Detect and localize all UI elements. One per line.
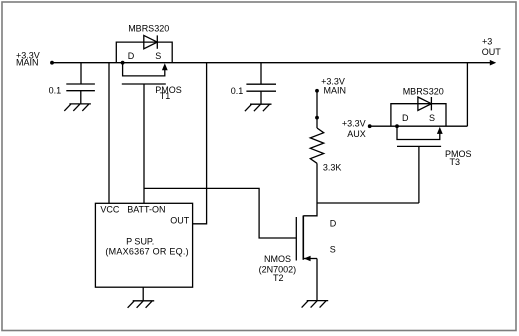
node: T3 drain junction (395, 124, 399, 128)
capacitor C2 0.1 (246, 84, 276, 91)
wire: T1 gate to BATT-ON pin (143, 84, 145, 203)
wire: +3.3V MAIN to resistor R1 (316, 91, 318, 118)
svg-text:MAIN: MAIN (16, 58, 39, 68)
wire: +3.3V AUX to T3 source corner (370, 125, 468, 127)
svg-text:0.1: 0.1 (49, 85, 62, 95)
wire: C1 to ground (80, 91, 82, 104)
T1 gate line (122, 83, 166, 85)
wire: T2 drain node to T3 gate (317, 202, 419, 204)
wire: rail down to OUT pin of U1 (193, 63, 207, 224)
IC U1 P SUP. (MAX6367 OR EQ.) box (95, 203, 192, 287)
svg-text:AUX: AUX (347, 129, 366, 139)
svg-text:T2: T2 (273, 273, 284, 283)
wire: resistor R1 to T2 drain node (316, 163, 318, 203)
node: T1 drain junction (121, 61, 125, 65)
T1 source arrow (162, 63, 168, 70)
svg-text:D: D (330, 218, 337, 228)
transistor Q2 NMOS T2 gate bar (295, 217, 297, 261)
svg-text:NMOS: NMOS (264, 254, 291, 264)
T2 source stub (304, 258, 317, 260)
ground under T2 (302, 301, 329, 308)
node: junction above resistor R1 (315, 116, 319, 120)
ground under C2 (245, 104, 272, 111)
svg-text:P SUP.: P SUP. (126, 236, 154, 246)
svg-text:+3: +3 (482, 36, 492, 46)
svg-text:S: S (330, 244, 336, 254)
svg-text:(MAX6367 OR EQ.): (MAX6367 OR EQ.) (105, 246, 189, 256)
svg-text:MAIN: MAIN (324, 86, 347, 96)
output arrowhead +3 OUT (490, 60, 496, 66)
diode D1 triangle and cathode bar (144, 35, 158, 48)
svg-text:OUT: OUT (170, 215, 190, 225)
node: +3.3V MAIN mid terminal (315, 89, 319, 93)
svg-text:MBRS320: MBRS320 (403, 86, 444, 96)
diode D2 MBRS320 loop over T3 (391, 104, 446, 127)
wire: rail down to VCC pin of U1 (108, 63, 110, 204)
wire: rail down to T3 source (466, 63, 468, 126)
wire: BATT-ON branch to T2 gate (144, 188, 296, 238)
svg-text:BATT-ON: BATT-ON (127, 204, 165, 214)
node: +3.3V AUX input terminal (368, 124, 372, 128)
svg-text:T3: T3 (450, 157, 461, 167)
svg-text:S: S (429, 113, 435, 123)
svg-text:D: D (128, 51, 135, 61)
svg-text:0.1: 0.1 (231, 86, 244, 96)
wire: rail to capacitor C1 (80, 63, 82, 84)
svg-text:OUT: OUT (482, 47, 502, 57)
capacitor C1 0.1 (66, 84, 95, 91)
ground under U1 (128, 301, 155, 308)
svg-text:T1: T1 (160, 91, 171, 101)
wire: rail to capacitor C2 (260, 63, 262, 84)
T3 gate line (397, 145, 441, 147)
T2 channel bar (302, 216, 304, 260)
ground under C1 (64, 104, 91, 111)
wire: C2 to ground (260, 91, 262, 104)
node: +3.3V MAIN input terminal (50, 61, 54, 65)
wire: main +3.3V rail to +3 OUT (52, 62, 492, 64)
T2 drain stub (303, 203, 317, 216)
svg-text:VCC: VCC (100, 204, 120, 214)
T2 source arrow (304, 256, 311, 262)
wire: junction to resistor R1 (316, 118, 318, 128)
transistor Q1 PMOS T1 body (123, 63, 165, 76)
wire: T3 gate to T2 drain node (418, 146, 420, 203)
diode D2 triangle and cathode bar (418, 97, 432, 110)
transistor Q3 PMOS T3 body (397, 126, 440, 139)
wire: U1 ground pin (142, 287, 144, 301)
svg-text:3.3K: 3.3K (323, 162, 342, 172)
svg-text:D: D (402, 113, 409, 123)
svg-text:MBRS320: MBRS320 (128, 24, 169, 34)
T3 source arrow (437, 127, 443, 134)
diode D1 MBRS320 loop over T1 (116, 42, 172, 63)
svg-text:S: S (155, 51, 161, 61)
svg-text:+3.3V: +3.3V (342, 119, 366, 129)
wire: T2 source to ground (316, 259, 318, 301)
resistor R1 3.3K (310, 128, 323, 163)
